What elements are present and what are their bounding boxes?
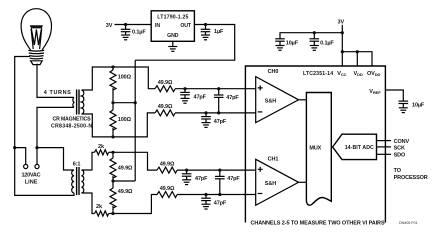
ground at regulator GND pin <box>168 41 177 51</box>
capacitor 47pF CH0+ to ground <box>180 89 190 99</box>
120VAC line terminals <box>13 146 39 169</box>
svg-text:OUT: OUT <box>180 23 192 29</box>
resistor 49.9 ohm upper divider <box>110 152 116 181</box>
svg-text:2k: 2k <box>96 204 103 210</box>
op-amp S&H CH1 <box>256 156 299 205</box>
wire bulb tip down to T1 primary top <box>37 64 74 98</box>
1.25V bias vertical line <box>134 60 136 181</box>
output line SDO <box>377 153 392 155</box>
svg-text:PROCESSOR: PROCESSOR <box>394 175 428 181</box>
ground below CH1+ cap <box>182 180 191 185</box>
wire bulb left terminal to left rail <box>15 57 30 148</box>
ground below 10uF <box>276 46 285 51</box>
lamp LOAD (incandescent bulb) <box>21 9 51 65</box>
output line SCK <box>377 146 392 148</box>
capacitor 1uF at regulator output <box>201 25 211 36</box>
svg-text:S&H: S&H <box>265 181 276 187</box>
node: VDD tap <box>356 50 359 53</box>
svg-text:47pF: 47pF <box>195 176 208 182</box>
capacitor 0.1uF at regulator input <box>121 25 131 36</box>
node: 1uF tap <box>204 23 207 26</box>
node: CH1 diff cap top <box>218 169 221 172</box>
node: 0.1uF bypass tap <box>313 31 316 34</box>
wire left rail to T2 primary bottom <box>15 148 74 196</box>
svg-text:VCC: VCC <box>337 71 346 77</box>
svg-text:SCK: SCK <box>394 145 405 151</box>
wire T1 secondary top to top rail <box>82 67 156 90</box>
ground below 0.1uF <box>121 35 130 40</box>
transformer T2 6:1 step-down <box>72 167 84 195</box>
node: CH0 diff cap bottom <box>217 111 220 114</box>
wire MUX to ADC <box>331 146 332 148</box>
wire center tap to 1.25V bias line <box>113 102 135 104</box>
wire T1 primary bottom return <box>37 107 74 147</box>
ground below reference cap <box>399 108 408 113</box>
node: divider bottom <box>111 212 114 215</box>
resistor 100 ohm upper burden <box>110 67 116 103</box>
svg-text:CH0: CH0 <box>268 69 279 75</box>
capacitor 10uF reference <box>399 101 409 108</box>
ADC U2 LTC2351-14 outline <box>245 66 385 223</box>
capacitor 10uF bypass <box>275 39 285 46</box>
svg-text:GND: GND <box>167 33 179 39</box>
svg-text:10µF: 10µF <box>412 102 425 108</box>
ground below CH0- cap <box>202 123 211 128</box>
wire VDD stub <box>356 52 358 66</box>
svg-text:14-BIT ADC: 14-BIT ADC <box>345 145 374 151</box>
svg-text:2k: 2k <box>98 144 105 150</box>
svg-text:CHANNELS 2-5 TO MEASURE TWO OT: CHANNELS 2-5 TO MEASURE TWO OTHER VI PAI… <box>251 221 385 227</box>
svg-text:VDD: VDD <box>354 71 363 77</box>
svg-text:47pF: 47pF <box>214 119 227 125</box>
wire divider center to bias line <box>113 180 135 182</box>
svg-text:LINE: LINE <box>25 180 38 186</box>
node: divider center <box>111 179 114 182</box>
op-amp S&H CH0 <box>256 69 299 123</box>
svg-text:47pF: 47pF <box>214 201 227 207</box>
node: CH0- filter tap <box>204 111 207 114</box>
node: divider top <box>111 151 114 154</box>
svg-text:47pF: 47pF <box>226 95 239 101</box>
svg-text:49.9Ω: 49.9Ω <box>158 80 173 86</box>
svg-text:100Ω: 100Ω <box>118 117 132 123</box>
wire T1 secondary bottom to bottom rail <box>82 113 156 137</box>
node: burden top junction <box>111 65 114 68</box>
svg-text:6:1: 6:1 <box>73 162 81 168</box>
svg-text:3V: 3V <box>106 23 113 29</box>
svg-text:100Ω: 100Ω <box>118 75 132 81</box>
wire regulator OUT to bias line <box>135 25 235 61</box>
node: bypass tap <box>341 31 344 34</box>
svg-text:DN405 F01: DN405 F01 <box>399 221 418 225</box>
svg-text:49.9Ω: 49.9Ω <box>118 166 133 172</box>
capacitor 47pF CH1+ to ground <box>182 170 192 180</box>
svg-text:CR MAGNETICS: CR MAGNETICS <box>53 116 92 122</box>
resistor 49.9 ohm CH0 minus input <box>155 110 175 116</box>
wire T2 secondary bottom <box>82 193 95 214</box>
node: CH1+ filter tap <box>185 169 188 172</box>
resistor 49.9 ohm CH0 plus input <box>155 86 175 92</box>
svg-text:10µF: 10µF <box>286 41 299 47</box>
svg-text:CH1: CH1 <box>268 156 279 162</box>
wire divider bottom to CH1 minus row <box>113 195 157 214</box>
ground below CH0+ cap <box>181 98 190 103</box>
resistor 49.9 ohm CH1 plus input <box>157 167 177 173</box>
capacitor 47pF CH1 differential <box>215 170 225 194</box>
node: CH0 diff cap top <box>217 87 220 90</box>
wire 120VAC to T2 primary top <box>37 148 74 170</box>
svg-text:SDO: SDO <box>394 153 406 159</box>
regulator U1 LT1790-1.25 <box>151 11 194 42</box>
svg-text:S&H: S&H <box>265 99 276 105</box>
svg-text:LT1790-1.25: LT1790-1.25 <box>157 14 188 20</box>
svg-text:3V: 3V <box>338 19 345 25</box>
MUX block <box>306 93 331 206</box>
svg-text:CONV: CONV <box>394 139 410 145</box>
svg-text:VREF: VREF <box>369 89 381 95</box>
transformer T1 CR8348-2500-N (current transformer, 4 turns primary) <box>73 90 84 115</box>
svg-text:IN: IN <box>155 23 160 29</box>
node: burden center tap <box>111 101 114 104</box>
svg-text:49.9Ω: 49.9Ω <box>118 189 133 195</box>
svg-text:TO: TO <box>394 168 402 174</box>
svg-text:4 TURNS: 4 TURNS <box>44 90 71 96</box>
wire divider top to CH1 plus row <box>113 152 157 170</box>
node: burden bottom junction <box>111 135 114 138</box>
node: CH1 diff cap bottom <box>218 193 221 196</box>
svg-text:49.9Ω: 49.9Ω <box>160 186 175 192</box>
node: 0.1uF tap <box>124 23 127 26</box>
resistor 2k upper <box>95 150 109 155</box>
ground below 1uF <box>201 35 210 40</box>
svg-text:LTC2351-14: LTC2351-14 <box>303 71 333 77</box>
ground below 0.1uF bypass <box>310 46 319 51</box>
wire 3V to regulator IN <box>115 24 152 26</box>
svg-text:49.9Ω: 49.9Ω <box>160 161 175 167</box>
svg-text:1µF: 1µF <box>214 29 224 35</box>
output line CONV <box>377 140 392 142</box>
svg-text:49.9Ω: 49.9Ω <box>158 104 173 110</box>
svg-text:OVDD: OVDD <box>367 71 381 77</box>
wire bypass bus <box>280 33 342 39</box>
ground below CH1- cap <box>202 204 211 209</box>
resistor 2k lower <box>95 211 109 216</box>
wire CH1 S&H output to MUX <box>299 181 307 183</box>
wire VDD/OVDD bus <box>342 52 372 66</box>
14-BIT ADC block <box>333 134 377 159</box>
wire T2 secondary top <box>82 152 95 170</box>
node: VCC/VDD bus junction <box>341 50 344 53</box>
svg-text:0.1µF: 0.1µF <box>320 41 334 47</box>
svg-text:120VAC: 120VAC <box>22 173 41 179</box>
svg-text:CR8348-2500-N: CR8348-2500-N <box>51 123 92 129</box>
svg-text:47pF: 47pF <box>227 176 240 182</box>
svg-text:47pF: 47pF <box>194 95 207 101</box>
svg-text:0.1µF: 0.1µF <box>132 30 146 36</box>
node: CH0+ filter tap <box>183 87 186 90</box>
capacitor 47pF CH0- to ground <box>201 113 211 123</box>
wire VREF to reference cap <box>385 90 403 101</box>
capacitor 47pF CH1- to ground <box>201 195 211 205</box>
resistor 100 ohm lower burden <box>110 103 116 137</box>
capacitor 47pF CH0 differential <box>214 89 224 113</box>
capacitor 0.1uF bypass <box>310 33 320 46</box>
svg-text:MUX: MUX <box>309 146 321 152</box>
node: CH1- filter tap <box>204 193 207 196</box>
resistor 49.9 ohm CH1 minus input <box>157 192 177 198</box>
wire 3V down to VCC pin <box>341 25 343 66</box>
wire CH0 S&H output to MUX <box>299 99 307 101</box>
resistor 49.9 ohm lower divider <box>110 181 116 214</box>
